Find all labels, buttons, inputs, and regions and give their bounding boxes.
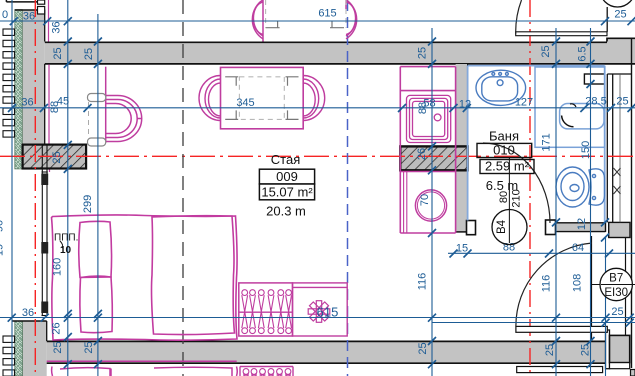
svg-text:B4: B4 <box>496 219 508 234</box>
svg-text:26: 26 <box>51 322 63 334</box>
svg-text:70: 70 <box>419 194 431 206</box>
svg-text:116: 116 <box>417 273 429 291</box>
dim line top <box>0 20 635 22</box>
svg-text:345: 345 <box>236 97 254 109</box>
insulation ladder bars lower <box>3 336 15 376</box>
svg-text:615: 615 <box>318 8 336 20</box>
svg-text:36: 36 <box>22 307 34 319</box>
svg-text:Стая: Стая <box>271 152 300 167</box>
dim line upper-mid <box>0 107 635 109</box>
svg-text:12: 12 <box>459 99 471 111</box>
niche box in bath <box>584 74 604 84</box>
bed <box>52 215 238 340</box>
svg-text:010: 010 <box>493 143 515 158</box>
axis red horizontal <box>0 155 635 157</box>
dim line lower <box>0 317 635 319</box>
door: bathroom size line <box>508 158 510 243</box>
B4 circle <box>492 210 527 245</box>
svg-text:25: 25 <box>83 341 95 353</box>
dim vertical x67.8 <box>67 0 69 376</box>
wall: left pier lower green insulation <box>15 321 23 376</box>
svg-text:25: 25 <box>580 344 592 356</box>
svg-text:20.3 m: 20.3 m <box>266 204 306 219</box>
svg-text:15.07 m²: 15.07 m² <box>261 185 313 200</box>
dim vertical x12 <box>11 0 13 376</box>
wall: left pier upper green insulation <box>15 10 22 169</box>
wall: bottom band bottom edge <box>47 362 606 364</box>
svg-text:25: 25 <box>417 47 429 59</box>
armchair west <box>106 67 142 143</box>
bath door jamb left <box>467 221 476 235</box>
svg-text:26: 26 <box>416 148 428 160</box>
svg-text:25: 25 <box>83 48 95 60</box>
chair A top <box>252 0 263 42</box>
svg-text:150: 150 <box>580 141 592 159</box>
svg-text:108: 108 <box>572 274 584 292</box>
svg-text:B7: B7 <box>609 273 623 285</box>
bath door jamb right <box>546 220 556 235</box>
ledge next to radiator <box>293 283 348 336</box>
svg-text:25: 25 <box>544 344 556 356</box>
dim vertical x432 <box>431 28 433 376</box>
wall: left pier right face <box>44 10 46 42</box>
fixture: bathtub <box>535 67 605 147</box>
dim line hall <box>448 252 635 254</box>
chair B top <box>346 0 357 39</box>
wall: left pier lower gray <box>23 321 47 376</box>
axis black dashed <box>182 0 184 376</box>
axis red vertical right <box>529 0 531 376</box>
wall: bath bottom wall <box>556 222 606 232</box>
kitchen counter <box>400 67 455 233</box>
dim vertical x605 <box>605 238 607 376</box>
wall: left pier top edge <box>15 9 45 11</box>
door frame edge top right <box>606 7 608 32</box>
door: bathroom swing arc <box>483 143 550 223</box>
svg-text:127: 127 <box>515 97 533 109</box>
svg-text:36: 36 <box>51 21 63 33</box>
door: top corridor leaf <box>516 32 607 36</box>
bath interior face lines <box>468 66 605 222</box>
wall: bottom-right block <box>610 335 630 362</box>
radiator <box>239 283 293 336</box>
armchair gray bars <box>88 94 106 147</box>
table inner dashed <box>239 77 284 120</box>
room number box <box>259 169 314 184</box>
axis red vertical left <box>34 0 36 376</box>
wall: bottom band fill <box>47 341 606 364</box>
bathtub drain arc <box>562 116 574 127</box>
svg-text:615: 615 <box>317 305 339 320</box>
svg-text:28.5: 28.5 <box>585 96 606 108</box>
door: top corridor swing arc <box>516 0 522 34</box>
section marker: hatched rect kitchen <box>400 146 467 170</box>
wall: top band fill <box>45 42 635 65</box>
bottom-right corner piece <box>631 370 635 376</box>
shaft inner line <box>619 74 621 222</box>
shaft: double wall lines right <box>607 74 631 222</box>
svg-text:6.5: 6.5 <box>577 46 589 61</box>
svg-text:36: 36 <box>23 11 35 23</box>
svg-text:210: 210 <box>511 189 523 207</box>
svg-text:160: 160 <box>52 258 64 276</box>
axis blue dashed <box>347 0 349 376</box>
entry door lining below wall <box>517 367 603 373</box>
kitchen sink <box>407 95 451 142</box>
fixture: wash basin <box>476 70 526 105</box>
svg-text:25: 25 <box>616 96 628 108</box>
table <box>221 67 304 128</box>
room area box <box>259 184 314 200</box>
wall: top band top edge <box>45 38 635 43</box>
shaft x-marks <box>614 168 621 194</box>
neighbour radiator below wall <box>240 367 293 376</box>
svg-text:12: 12 <box>576 218 588 230</box>
window: left wall glazed door <box>42 172 48 316</box>
svg-text:0: 0 <box>2 9 8 21</box>
svg-text:25: 25 <box>52 341 64 353</box>
svg-text:171: 171 <box>541 133 553 151</box>
dim vertical x590.5 <box>590 28 592 376</box>
svg-text:2.59 m²: 2.59 m² <box>485 159 530 174</box>
snowflake symbol (outlined 8-point star) <box>308 301 330 323</box>
svg-text:25: 25 <box>540 45 552 57</box>
dim vertical x97.9 <box>97 14 99 376</box>
door: entry swing arc <box>516 243 592 326</box>
neighbour bed below-left <box>47 361 238 376</box>
svg-text:116: 116 <box>541 275 553 293</box>
table corner hooks <box>225 77 298 120</box>
svg-text:36: 36 <box>21 97 33 109</box>
wall: bottom band top edge <box>47 340 606 342</box>
svg-text:Баня: Баня <box>489 129 519 144</box>
svg-text:25: 25 <box>51 151 63 163</box>
dim vertical x556 <box>555 28 557 376</box>
svg-text:EI30: EI30 <box>604 287 628 299</box>
wall: kitchen/bath divider <box>456 64 468 232</box>
svg-text:299: 299 <box>82 195 94 213</box>
lining below bottom-right block <box>610 363 630 369</box>
chair left of table <box>199 76 221 121</box>
finish line magenta interior left <box>48 65 50 145</box>
neighbour jamb top-left corner <box>6 0 37 2</box>
svg-text:10: 10 <box>60 245 72 256</box>
svg-text:88: 88 <box>49 101 61 113</box>
svg-text:25: 25 <box>611 306 623 318</box>
B7 circle <box>592 284 635 286</box>
svg-text:88: 88 <box>417 102 429 114</box>
neighbour table hooks top <box>266 21 344 28</box>
window mullion blocks <box>41 174 48 186</box>
dim line lower second <box>432 322 635 324</box>
fixture: toilet <box>556 167 605 207</box>
svg-text:25: 25 <box>614 9 626 21</box>
door: entry leaf <box>516 326 607 332</box>
wall: left pier lower top edge <box>12 320 47 322</box>
wall: bath bottom-right step <box>609 222 630 237</box>
svg-text:ППП.: ППП. <box>54 233 78 244</box>
wall: top band bottom edge <box>45 63 635 65</box>
wall: left pier upper gray <box>22 10 44 145</box>
right exterior edge <box>631 38 633 369</box>
svg-text:64: 64 <box>572 242 584 254</box>
finish line magenta above wall left <box>48 0 50 42</box>
window frame lines through section <box>42 145 47 172</box>
svg-text:25: 25 <box>52 47 64 59</box>
section marker: hatched rect left wall <box>23 145 87 169</box>
chair right of table <box>303 76 325 121</box>
insulation ladder bars upper <box>3 29 15 137</box>
svg-text:15: 15 <box>456 243 468 255</box>
svg-text:009: 009 <box>276 169 298 184</box>
washing machine <box>415 190 446 221</box>
label circle top right (cut) <box>600 0 635 7</box>
svg-text:90: 90 <box>0 220 6 232</box>
entry jamb white slot <box>606 330 610 369</box>
svg-text:25: 25 <box>417 342 429 354</box>
wall: top-right step fill <box>607 38 635 65</box>
svg-text:19: 19 <box>0 244 6 256</box>
svg-text:80: 80 <box>498 191 510 203</box>
hall east wall line <box>591 236 593 341</box>
